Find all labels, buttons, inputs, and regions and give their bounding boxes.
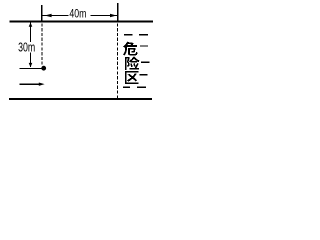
svg-text:40m: 40m xyxy=(69,6,86,20)
svg-text:30m: 30m xyxy=(18,40,35,54)
